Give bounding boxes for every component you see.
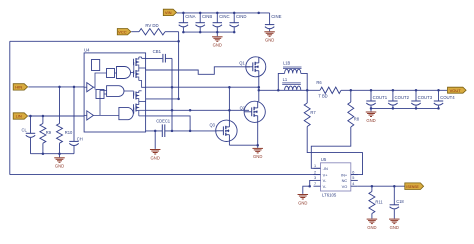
svg-text:CDEC1: CDEC1 — [156, 119, 171, 124]
svg-text:-IN: -IN — [323, 166, 328, 171]
svg-text:COUT4: COUT4 — [440, 95, 455, 100]
svg-text:GND: GND — [265, 38, 274, 43]
svg-text:ISENSE: ISENSE — [406, 185, 419, 189]
svg-text:3: 3 — [314, 176, 316, 180]
svg-text:U4: U4 — [84, 47, 90, 52]
svg-text:VOUT: VOUT — [450, 88, 462, 93]
svg-text:GND: GND — [213, 43, 222, 48]
svg-text:R7: R7 — [310, 110, 316, 115]
svg-text:R8: R8 — [354, 116, 360, 121]
svg-text:L1B: L1B — [283, 61, 291, 66]
svg-text:CINA: CINA — [185, 14, 195, 19]
svg-text:CINC: CINC — [219, 14, 230, 19]
svg-text:VCC: VCC — [118, 29, 127, 34]
svg-text:L1: L1 — [283, 77, 288, 82]
svg-text:GND: GND — [298, 200, 307, 205]
svg-text:CH: CH — [77, 137, 83, 142]
svg-text:VIN: VIN — [165, 10, 172, 15]
svg-text:GND: GND — [367, 225, 376, 230]
svg-text:CB1: CB1 — [153, 49, 162, 54]
svg-text:5: 5 — [352, 176, 354, 180]
svg-text:COUT1: COUT1 — [373, 95, 388, 100]
svg-text:GND: GND — [151, 155, 160, 160]
svg-text:CINB: CINB — [202, 14, 212, 19]
svg-text:6: 6 — [352, 170, 354, 174]
svg-text:NC: NC — [342, 178, 348, 183]
svg-text:R11: R11 — [375, 199, 383, 204]
svg-text:U5: U5 — [321, 157, 327, 162]
svg-text:LT6105: LT6105 — [322, 193, 337, 198]
svg-text:GND: GND — [366, 118, 375, 123]
svg-text:Q1: Q1 — [239, 61, 245, 66]
svg-text:CINE: CINE — [271, 14, 281, 19]
svg-text:R10: R10 — [65, 130, 73, 135]
svg-text:COUT2: COUT2 — [395, 95, 410, 100]
svg-text:7: 7 — [314, 182, 316, 186]
svg-text:HIN: HIN — [15, 85, 22, 90]
svg-text:RV DD: RV DD — [145, 23, 158, 28]
svg-text:4: 4 — [352, 182, 354, 186]
svg-text:IN+: IN+ — [341, 172, 348, 177]
svg-text:CL: CL — [22, 128, 28, 133]
svg-text:GND: GND — [55, 164, 64, 169]
svg-text:V+: V+ — [323, 172, 329, 177]
svg-text:COUT3: COUT3 — [418, 95, 433, 100]
svg-text:Q3: Q3 — [210, 122, 216, 127]
svg-text:GND: GND — [253, 154, 262, 159]
svg-text:CIND: CIND — [236, 14, 247, 19]
svg-text:VO: VO — [342, 184, 348, 189]
svg-text:GND: GND — [390, 225, 399, 230]
svg-text:LIN: LIN — [16, 114, 22, 119]
svg-text:2: 2 — [314, 170, 316, 174]
svg-text:T BD: T BD — [318, 94, 327, 99]
svg-text:C18: C18 — [396, 199, 404, 204]
svg-text:1: 1 — [314, 164, 316, 168]
svg-text:R6: R6 — [316, 80, 322, 85]
svg-text:R9: R9 — [46, 130, 52, 135]
